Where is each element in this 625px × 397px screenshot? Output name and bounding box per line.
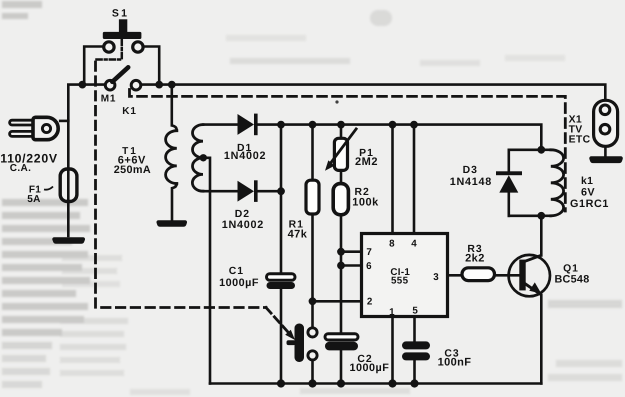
resistor R2 (333, 184, 348, 215)
fuse F1 internal wire (67, 169, 70, 202)
node pin7 tap (337, 248, 345, 256)
svg-text:M1: M1 (101, 94, 117, 105)
svg-text:5: 5 (412, 305, 418, 316)
svg-text:1N4002: 1N4002 (224, 150, 266, 162)
wire C2 bottom to ground bus (340, 350, 343, 383)
svg-text:47k: 47k (288, 228, 308, 240)
svg-text:S1: S1 (112, 7, 129, 19)
wire top rail left from plug riser to M1 left contact (68, 83, 104, 86)
node relay top (537, 146, 545, 154)
switch M1 arm (112, 67, 128, 82)
wire S1 upper-left contact to left junction (84, 47, 103, 85)
svg-text:D3: D3 (463, 165, 478, 176)
node pin8 top (389, 121, 397, 129)
wire C1 bottom to ground bus (280, 289, 283, 384)
svg-text:2M2: 2M2 (355, 156, 378, 168)
wire transformer primary to ground (172, 184, 177, 221)
svg-text:G1RC1: G1RC1 (570, 198, 609, 210)
dash-dot link from S1 plunger to M1 arm (97, 40, 122, 60)
diode D3 cathode bar (496, 171, 522, 175)
dashed diagonal arrow to pushbutton (266, 308, 288, 332)
fuse F1 body (60, 169, 77, 202)
svg-text:1000µF: 1000µF (219, 277, 259, 289)
svg-text:ETC: ETC (569, 135, 591, 146)
node primary top junction (168, 81, 176, 89)
svg-text:2k2: 2k2 (465, 252, 485, 264)
wire R1 bottom to pin2 node (311, 214, 314, 301)
arrowhead of dashed linkage pointing at pushbutton (285, 330, 295, 340)
wire P1 top riser (340, 125, 343, 139)
transistor Q1 body (509, 255, 550, 296)
wire D2 cathode to +V vertical (258, 190, 281, 193)
capacitor C3 plates (402, 341, 430, 349)
relay K1 coil (551, 150, 564, 216)
stray ink dot (335, 100, 338, 103)
node pin6 tap (337, 262, 345, 270)
diode D2 (238, 180, 258, 202)
diode D3 triangle (499, 175, 518, 192)
mains plug prongs (10, 120, 34, 125)
svg-text:6V: 6V (581, 186, 595, 198)
wire C3 bottom to ground bus (413, 360, 416, 383)
ground (X1) (589, 156, 623, 163)
transformer T1 secondary coil (192, 125, 203, 192)
wire +V bus to relay top corner (281, 125, 541, 150)
wire pushbutton bottom contact to ground bus (311, 360, 314, 384)
wire R1 top riser (311, 125, 314, 181)
wire pin7 stub (341, 250, 363, 253)
svg-text:8: 8 (389, 239, 395, 250)
wire +V vertical down to C1 (280, 125, 283, 274)
node D1 output (277, 121, 285, 129)
wire relay bottom node to coil (541, 215, 551, 218)
pushbutton (S1 second pole) plunger (287, 324, 305, 363)
wire secondary bottom to D2 (203, 190, 239, 193)
label F1 pointer tick (44, 187, 53, 190)
svg-text:2: 2 (367, 297, 373, 308)
wire secondary center tap to ground bus riser (203, 158, 210, 384)
svg-text:1N4148: 1N4148 (450, 176, 492, 188)
node plug/S1-left junction (79, 81, 87, 89)
node R1 top (309, 121, 317, 129)
node relay bottom (537, 212, 545, 220)
transistor Q1 collector lead (524, 255, 542, 262)
wire P1 to R2 (340, 170, 343, 183)
svg-text:4: 4 (411, 239, 417, 250)
svg-text:7: 7 (366, 247, 372, 258)
svg-text:C.A.: C.A. (10, 163, 31, 174)
wire transformer primary feed (172, 85, 177, 131)
wire X1 to ground stub (604, 146, 607, 157)
wire pin1 to ground bus (391, 317, 394, 384)
wire R2 bottom to pins 7-6 node and down to C2 (340, 215, 343, 334)
potentiometer P1 body (334, 138, 347, 170)
svg-text:1000µF: 1000µF (349, 362, 389, 374)
transistor Q1 emitter lead (524, 283, 541, 295)
wire D1 cathode to +V node (258, 123, 281, 126)
ground (transformer primary) (156, 220, 187, 227)
svg-text:BC548: BC548 (554, 274, 589, 286)
node D2 output (277, 187, 285, 195)
wire Q1 collector riser to relay bottom node (540, 216, 543, 256)
svg-text:100nF: 100nF (438, 356, 472, 368)
wire D3 branch top (509, 149, 542, 152)
socket X1 holes (600, 105, 610, 115)
mains plug body (33, 117, 58, 139)
wire pin4 riser (413, 125, 416, 234)
wire Q1 emitter down to ground bus corner (540, 295, 543, 384)
svg-text:250mA: 250mA (114, 164, 151, 176)
wire top rail from M1 right contact to X1 drop (142, 85, 606, 101)
node bus C2 (337, 379, 345, 387)
ground (mains return below fuse) (52, 237, 85, 244)
capacitor C1 plates (267, 274, 296, 280)
switch M1/K1 contacts (105, 80, 115, 90)
wire pin8 riser (391, 125, 394, 234)
switch S1 plunger (103, 19, 142, 39)
wire D3 branch bottom (509, 215, 542, 218)
wire secondary top to D1 (203, 123, 239, 126)
wire pin6 stub (341, 264, 363, 267)
svg-text:1: 1 (389, 307, 395, 318)
transistor Q1 emitter arrow (529, 282, 541, 293)
wire ground bus (210, 382, 541, 385)
node secondary center tap (200, 154, 207, 161)
node pin4 top (410, 121, 418, 129)
resistor R1 (306, 180, 319, 214)
wire D3 anode-cathode verticals (507, 150, 510, 216)
wire relay top node to coil (541, 149, 551, 152)
socket X1 body (594, 100, 618, 146)
svg-text:K1: K1 (122, 106, 136, 117)
IC CI-1 555 body (362, 234, 448, 317)
transformer T1 primary coil (166, 131, 177, 184)
node P1 top (337, 121, 345, 129)
dashed link K1 contact to relay coil (130, 90, 566, 212)
svg-text:C1: C1 (229, 266, 244, 277)
diode D1 (238, 114, 258, 136)
wire pin5 down to C3 (413, 317, 416, 342)
wire R3 to Q1 base (495, 274, 520, 277)
wire S1 upper-right contact to right junction (144, 47, 159, 85)
node pin2 tap (309, 297, 317, 305)
mains plug hole (42, 124, 50, 132)
node bus pin1 (388, 379, 396, 387)
svg-text:1N4002: 1N4002 (222, 219, 264, 231)
svg-text:555: 555 (391, 276, 409, 287)
wire plug riser down through fuse to ground (67, 85, 70, 236)
node bus pushbutton (308, 379, 316, 387)
svg-text:3: 3 (433, 272, 439, 283)
capacitor C2 plates (325, 334, 358, 340)
pushbutton contacts (308, 328, 317, 337)
dashed link S1 down the left side to lower pushbutton (96, 62, 267, 308)
resistor R3 (462, 268, 495, 281)
node S1-right junction (155, 81, 163, 89)
switch S1 upper contacts (104, 42, 114, 52)
wire pin2 stub (313, 300, 364, 303)
wire pin2 node to pushbutton top contact (311, 301, 314, 328)
wire plug body stub (60, 120, 68, 123)
svg-text:5A: 5A (27, 194, 40, 205)
node bus C3 (410, 379, 418, 387)
transistor Q1 base bar (519, 260, 525, 291)
node bus C1 (277, 379, 285, 387)
svg-text:100k: 100k (352, 196, 379, 208)
wire pin3 stub to R3 (448, 274, 463, 277)
svg-text:6: 6 (366, 261, 372, 272)
potentiometer P1 wiper arrow (331, 128, 358, 163)
